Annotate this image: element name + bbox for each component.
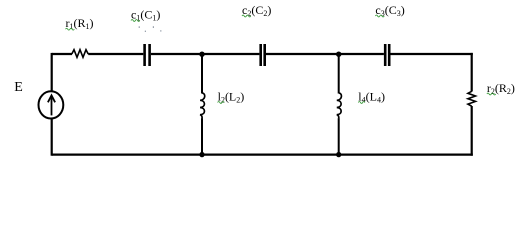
spellcheck squiggle under l4 [358,102,365,104]
voltage source arrow head [48,95,55,102]
spellcheck squiggle under c3 [375,15,384,17]
wire L4 branch upper [338,54,340,94]
svg-text:E: E [14,80,23,95]
wire L4 branch lower [338,118,340,154]
inductor L2 [200,93,205,118]
wire right vertical lower [471,106,473,156]
wire bottom rail [52,153,473,155]
spellcheck squiggle under l2 [218,102,225,104]
inductor L4 [337,93,342,118]
voltage source arrow shaft [51,97,53,116]
capacitor C2 [261,44,265,66]
wire left vertical upper [51,53,53,91]
spellcheck squiggle under r2 [487,93,496,95]
wire top rail left segment [52,53,72,55]
spellcheck squiggle under r1 [66,28,75,30]
junction node L4 top [336,52,341,57]
capacitor C3 [385,44,389,66]
wire top rail C3 to right corner [390,53,472,55]
wire left vertical lower [51,119,53,156]
spellcheck squiggle under c1 [131,20,140,22]
resistor R1 [72,50,88,58]
junction node L2 top [199,52,204,57]
resistor R2 [468,91,476,106]
spellcheck squiggle under c2 [242,15,251,17]
junction node L2 bottom [199,152,204,157]
wire L2 branch upper [201,54,203,94]
wire top rail C2 to C3 [266,53,384,55]
junction node L4 bottom [336,152,341,157]
wire top rail r1 to C1 [88,53,143,55]
wire top rail C1 to C2 [151,53,260,55]
capacitor C1 [145,44,150,66]
voltage source E circle [39,91,64,118]
faint speck artifacts near c1 label [139,26,162,32]
wire right vertical upper [471,53,473,92]
wire L2 branch lower [201,118,203,154]
